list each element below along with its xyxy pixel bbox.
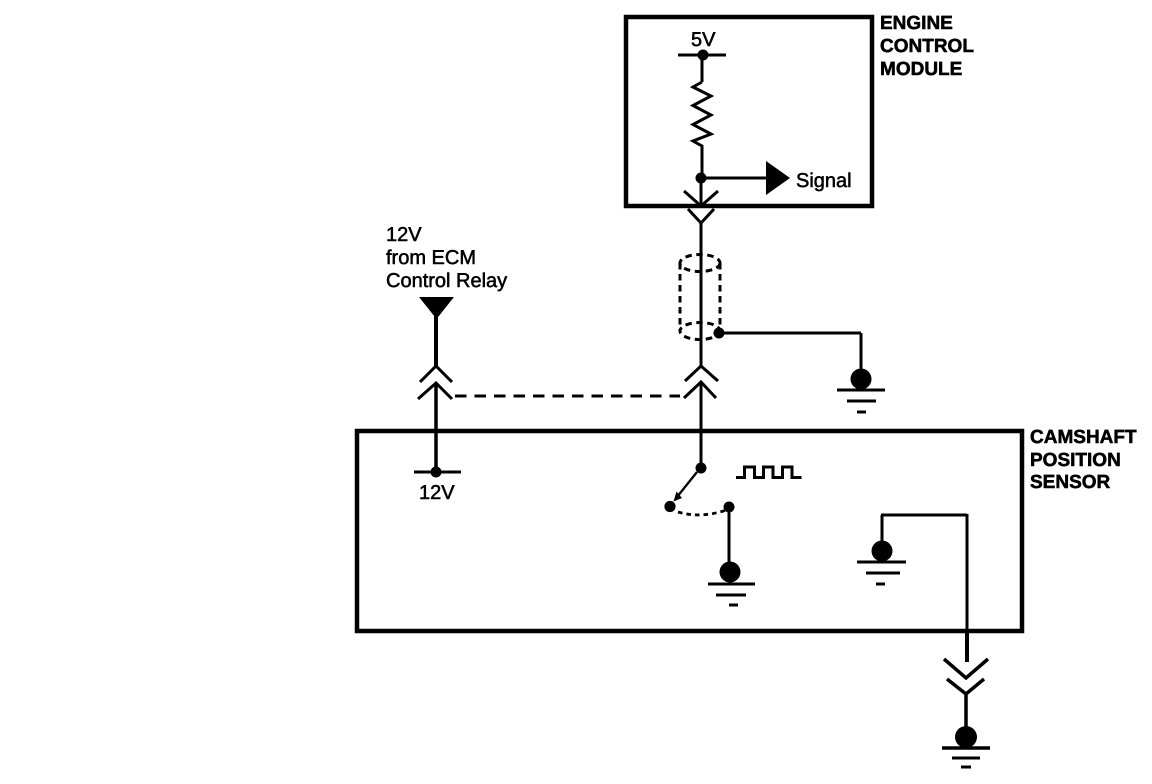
svg-text:CAMSHAFT: CAMSHAFT xyxy=(1030,427,1137,448)
svg-text:MODULE: MODULE xyxy=(880,59,962,80)
svg-text:POSITION: POSITION xyxy=(1030,450,1121,471)
svg-text:from ECM: from ECM xyxy=(386,247,476,269)
svg-text:CONTROL: CONTROL xyxy=(880,36,974,57)
svg-text:Control Relay: Control Relay xyxy=(386,270,507,292)
svg-text:12V: 12V xyxy=(419,482,455,504)
svg-text:ENGINE: ENGINE xyxy=(880,13,953,34)
svg-text:5V: 5V xyxy=(691,29,716,51)
svg-text:Signal: Signal xyxy=(796,170,852,192)
svg-text:12V: 12V xyxy=(386,224,422,246)
svg-text:SENSOR: SENSOR xyxy=(1030,472,1111,493)
